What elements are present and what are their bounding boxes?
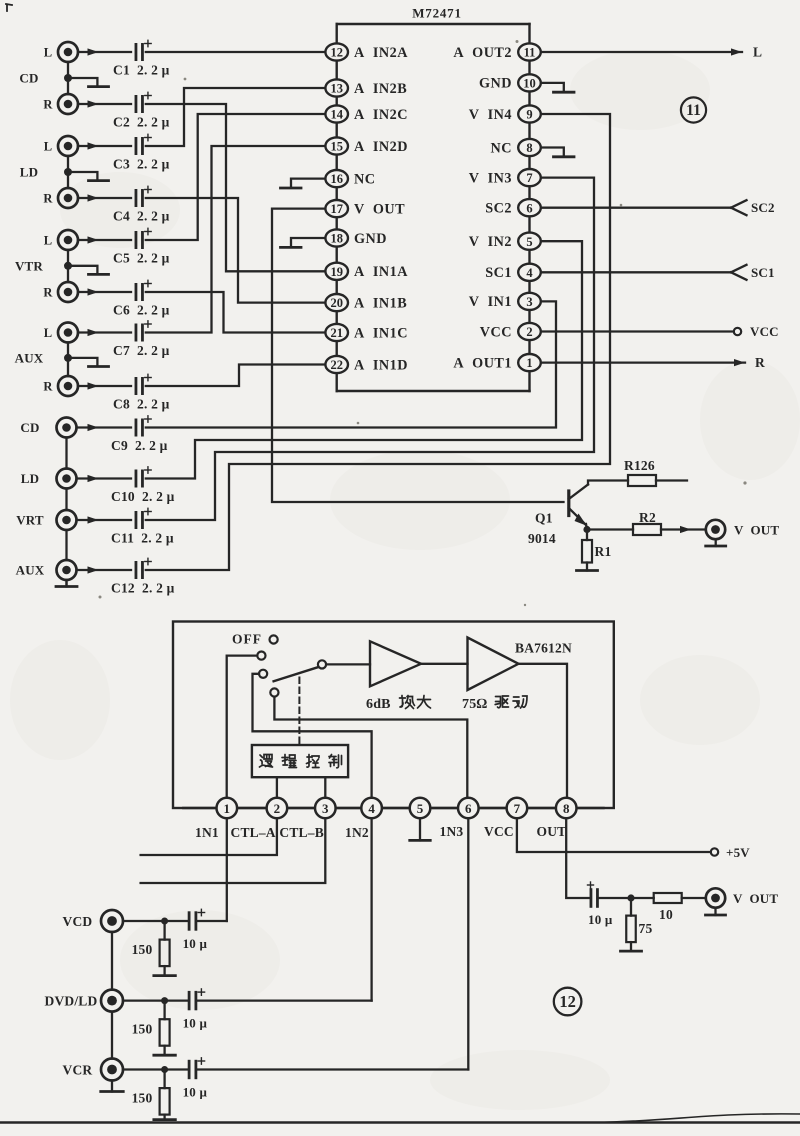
wire pin4 to DVD/LD input (370, 818, 372, 1001)
svg-text:OFF: OFF (232, 632, 262, 647)
capacitor C4 2.2u (113, 186, 170, 223)
wire jack to C4 (78, 194, 131, 201)
svg-text:SC2: SC2 (751, 200, 775, 215)
switch contact D (common) (318, 660, 326, 668)
wire cap to junction (598, 897, 632, 899)
wire jack to C5 (78, 236, 131, 243)
svg-text:18: 18 (330, 232, 343, 246)
svg-text:1N1: 1N1 (195, 825, 219, 840)
node CD junction (64, 74, 72, 82)
wire junction to resistor 150 (VCR) (163, 1073, 165, 1088)
pin 22 A IN1D (325, 356, 408, 373)
wire AUX jack pair chain (67, 343, 69, 377)
wire CD jack pair chain (67, 62, 69, 94)
wire C2 to pin19 (146, 104, 326, 271)
wire junction to resistor 150 (VCD) (163, 925, 165, 940)
wire jack to C6 (78, 288, 131, 295)
svg-text:Q1: Q1 (535, 511, 553, 526)
svg-text:V OUT: V OUT (734, 522, 779, 537)
svg-text:BA7612N: BA7612N (515, 641, 572, 656)
wire pin4 SC1 (541, 265, 747, 280)
resistor R126 (624, 458, 656, 486)
svg-text:R2: R2 (639, 510, 656, 525)
wire jack to C7 (78, 329, 131, 336)
svg-text:R: R (755, 355, 765, 370)
label AUX (15, 350, 44, 365)
wire pin17 V OUT to Q1 base (272, 209, 564, 502)
page bottom rule (0, 1121, 800, 1124)
svg-text:5: 5 (526, 235, 532, 249)
ground video jacks (56, 580, 77, 587)
pin 18 GND (325, 229, 387, 246)
page curl line (595, 1114, 800, 1123)
svg-text:L: L (44, 140, 53, 154)
svg-text:20: 20 (330, 296, 343, 310)
wire C1 to pin12 (146, 51, 326, 53)
wire cap to pin (VCD) (196, 920, 227, 922)
capacitor C7 2.2u (113, 321, 170, 358)
wire junction to R1 (586, 533, 588, 540)
wire VCR jack to cap (123, 1068, 189, 1070)
RCA jack V OUT (bottom) (706, 888, 779, 907)
label figure 12 (554, 988, 582, 1016)
ground pin10 GND (541, 83, 574, 92)
svg-text:V IN1: V IN1 (469, 294, 512, 310)
pin 1 A OUT1 (453, 354, 540, 371)
wire jack to C3 (78, 142, 131, 149)
ground VTR (68, 266, 109, 275)
ground pin5 (410, 818, 431, 840)
ground CD (68, 78, 109, 87)
label R output (755, 355, 765, 370)
svg-text:8: 8 (526, 141, 532, 155)
svg-text:12: 12 (330, 46, 343, 60)
svg-text:L: L (44, 234, 53, 248)
label CD (19, 71, 38, 86)
svg-text:22: 22 (330, 358, 343, 372)
svg-text:R: R (43, 380, 53, 394)
svg-text:VCC: VCC (750, 324, 779, 339)
capacitor C5 2.2u (113, 228, 170, 265)
pin 10 GND (479, 74, 541, 91)
svg-text:LD: LD (21, 471, 39, 486)
svg-text:SC1: SC1 (485, 265, 512, 281)
wire C4 to pin20 (146, 198, 326, 303)
svg-text:11: 11 (686, 102, 701, 119)
pin 7 of U2 (507, 798, 528, 819)
IC U1 label M72471 (412, 6, 462, 21)
resistor 150 (VCR) (132, 1088, 170, 1115)
ground resistor 150 (VCD) (154, 966, 176, 976)
wire R126 right (656, 479, 687, 481)
RCA jack DVD/LD (45, 990, 124, 1012)
pin 11 A OUT2 (453, 43, 540, 60)
svg-text:150: 150 (132, 1091, 153, 1106)
ground resistor 150 (VCR) (154, 1115, 176, 1120)
node LD junction (64, 168, 72, 176)
svg-text:2: 2 (526, 325, 532, 339)
svg-text:M72471: M72471 (412, 6, 462, 21)
capacitor C10 2.2u (111, 467, 175, 504)
svg-text:V IN2: V IN2 (469, 234, 512, 250)
wire VCD jack to cap (123, 920, 189, 922)
switch arm (274, 667, 318, 681)
svg-text:VCD: VCD (63, 914, 93, 929)
RCA jack video LD (21, 469, 77, 489)
svg-text:5: 5 (417, 801, 424, 816)
switch contact B (IN1) (257, 652, 265, 660)
RCA jack LD R (43, 188, 78, 208)
pin 19 A IN1A (325, 263, 408, 280)
pin 2 VCC (480, 323, 541, 340)
wire pin6 to VCR input (467, 818, 469, 1070)
wire jack to C11 (77, 516, 132, 523)
capacitor C11 2.2u (111, 508, 174, 545)
svg-text:6: 6 (465, 801, 472, 816)
pin 6 SC2 (485, 199, 541, 216)
svg-text:C9 2. 2 μ: C9 2. 2 μ (111, 438, 168, 453)
wire contact C to pin4 (253, 674, 372, 798)
RCA jack video VRT (16, 510, 76, 530)
svg-text:NC: NC (354, 171, 376, 187)
capacitor C9 2.2u (111, 416, 168, 453)
ground pin16 NC (281, 179, 326, 188)
wire C8 to pin22 (146, 365, 326, 387)
svg-text:V OUT: V OUT (354, 201, 405, 217)
capacitor C2 2.2u (113, 92, 170, 129)
svg-text:150: 150 (132, 942, 153, 957)
svg-text:7: 7 (526, 171, 532, 185)
wire LD jack pair chain (67, 156, 69, 188)
pin 15 A IN2D (325, 137, 408, 154)
label 75 ohm driver (462, 696, 527, 712)
pin 20 A IN1B (325, 294, 407, 311)
svg-text:C2 2. 2 μ: C2 2. 2 μ (113, 115, 170, 130)
wire junction to resistor 75 (630, 902, 632, 916)
scan specks (99, 40, 747, 606)
svg-text:A IN2A: A IN2A (354, 45, 408, 61)
svg-text:C5 2. 2 μ: C5 2. 2 μ (113, 251, 170, 266)
svg-text:LD: LD (20, 165, 38, 180)
wire jack to C1 (78, 48, 131, 55)
wire contact B to pin1 (227, 656, 258, 798)
wire pin2 VCC (541, 328, 741, 335)
resistor 75 ohm (626, 916, 652, 943)
svg-text:4: 4 (526, 266, 533, 280)
svg-text:GND: GND (479, 76, 512, 92)
RCA jack AUX R (43, 376, 78, 396)
svg-text:11: 11 (524, 46, 536, 60)
wire C6 to pin21 (146, 292, 326, 333)
switch contact OFF (270, 635, 278, 643)
RCA jack video CD (20, 418, 76, 438)
pin 1 of U2 (217, 798, 238, 819)
svg-text:C8 2. 2 μ: C8 2. 2 μ (113, 397, 170, 412)
pin 9 V IN4 (469, 105, 541, 122)
wire video jack chain (65, 438, 67, 585)
svg-text:A OUT2: A OUT2 (453, 45, 512, 61)
resistor R2 (633, 510, 661, 535)
svg-text:CD: CD (19, 71, 38, 86)
svg-text:9: 9 (526, 108, 532, 122)
wire jack to C2 (78, 100, 131, 107)
RCA jack VTR L (44, 230, 78, 250)
node DVD/LD junction (161, 997, 168, 1004)
label SC1 (751, 265, 775, 280)
IC U2 label BA7612N (515, 641, 572, 656)
pin 12 A IN2A (325, 43, 408, 60)
resistor R1 (582, 540, 611, 563)
scan speck top-left (6, 4, 12, 11)
wire DVD/LD jack to cap (123, 999, 189, 1001)
pin 17 V OUT (325, 200, 405, 217)
svg-text:6dB: 6dB (366, 697, 391, 712)
dashed control link (298, 678, 300, 745)
svg-text:10: 10 (523, 77, 536, 91)
svg-text:VCC: VCC (480, 324, 512, 340)
wire C7 to pin15 (146, 146, 326, 333)
logic control box (252, 745, 348, 777)
wire emitter to R2 (587, 528, 633, 530)
svg-text:9014: 9014 (528, 531, 556, 546)
capacitor 10u (DVD/LD) (183, 989, 208, 1031)
svg-text:C11 2. 2 μ: C11 2. 2 μ (111, 531, 174, 546)
svg-text:8: 8 (563, 801, 570, 816)
svg-text:R: R (43, 192, 53, 206)
svg-text:A IN1B: A IN1B (354, 295, 407, 311)
capacitor C12 2.2u (111, 558, 175, 595)
IC U2 BA7612N body outline (173, 622, 614, 809)
svg-text:75Ω: 75Ω (462, 697, 487, 712)
pin 4 SC1 (485, 264, 541, 281)
svg-text:C1 2. 2 μ: C1 2. 2 μ (113, 63, 170, 78)
ground resistor 75 (621, 942, 642, 951)
resistor 150 (VCD) (132, 940, 170, 967)
svg-text:NC: NC (491, 140, 513, 156)
capacitor C1 2.2u (113, 40, 170, 77)
pin 5 of U2 (410, 798, 431, 819)
wire amp1 to amp2 (421, 663, 468, 665)
wire C3 to pin13 (146, 88, 326, 146)
capacitor C6 2.2u (113, 280, 170, 317)
svg-text:CTL–A: CTL–A (231, 825, 276, 840)
svg-text:L: L (753, 45, 762, 60)
wire R2 to V OUT jack (661, 526, 706, 533)
svg-text:7: 7 (514, 801, 521, 816)
wire VTR jack pair chain (67, 250, 69, 282)
wire C9 to pin3 V IN1 (146, 301, 556, 427)
svg-text:1N2: 1N2 (345, 825, 369, 840)
RCA jack AUX L (44, 323, 78, 343)
wire Q1 collector (588, 481, 628, 485)
wire contact E to pin6 (274, 697, 467, 798)
svg-text:10 μ: 10 μ (183, 1016, 208, 1031)
ground V OUT jack (top) (706, 539, 726, 546)
svg-text:L: L (44, 46, 53, 60)
node output junction (627, 894, 634, 901)
svg-text:2: 2 (274, 801, 281, 816)
svg-text:A IN2D: A IN2D (354, 139, 408, 155)
svg-text:VTR: VTR (15, 258, 43, 273)
svg-text:+5V: +5V (726, 845, 750, 860)
transistor Q1 9014 (528, 485, 588, 547)
svg-text:V IN3: V IN3 (469, 170, 512, 186)
ground R1 (577, 563, 598, 571)
wire jack to C9 (77, 424, 132, 431)
svg-text:16: 16 (330, 172, 343, 186)
label +5V (726, 845, 750, 860)
RCA jack LD L (44, 136, 78, 156)
svg-text:21: 21 (330, 326, 343, 340)
wire pin1 A OUT1 to R output (541, 359, 745, 366)
pin 14 A IN2C (325, 105, 408, 122)
svg-text:VCC: VCC (484, 824, 514, 839)
node VTR junction (64, 262, 72, 270)
ground resistor 150 (DVD/LD) (154, 1046, 176, 1056)
svg-text:10 μ: 10 μ (588, 912, 613, 927)
pin 13 A IN2B (325, 79, 407, 96)
node AUX junction (64, 354, 72, 362)
RCA jack video AUX (16, 560, 77, 580)
svg-text:V IN4: V IN4 (469, 107, 512, 123)
wire jack to C12 (77, 566, 132, 573)
ground LD (68, 172, 109, 181)
RCA jack CD L (44, 42, 78, 62)
svg-text:3: 3 (526, 295, 532, 309)
wire C12 to pin9 V IN4 (146, 114, 610, 570)
svg-text:13: 13 (330, 82, 343, 96)
pin 4 of U2 (361, 798, 382, 819)
svg-text:1: 1 (224, 801, 231, 816)
pin 8 NC (491, 139, 541, 156)
wire junction to resistor 150 (DVD/LD) (163, 1004, 165, 1019)
resistor 10 ohm (654, 893, 682, 922)
label L output (753, 45, 762, 60)
RCA jack V OUT (top) (706, 520, 780, 539)
svg-text:150: 150 (132, 1022, 153, 1037)
wire junction to R 10 (631, 897, 654, 899)
ground V OUT jack (bottom) (706, 908, 726, 915)
svg-text:A IN1D: A IN1D (354, 357, 408, 373)
wire pin3 CTL-B stub (141, 818, 326, 883)
svg-text:17: 17 (330, 202, 343, 216)
node VCD junction (161, 918, 168, 925)
node Q1 emitter junction (583, 524, 590, 533)
svg-text:C7 2. 2 μ: C7 2. 2 μ (113, 343, 170, 358)
pin labels U2 (195, 824, 566, 840)
svg-text:10 μ: 10 μ (183, 1085, 208, 1100)
label figure 11 (681, 97, 706, 122)
pin 3 V IN1 (469, 293, 541, 310)
svg-text:4: 4 (368, 801, 375, 816)
wire logic box to pin2 (276, 777, 278, 798)
capacitor 10u (VCD) (183, 909, 208, 951)
svg-text:19: 19 (330, 265, 343, 279)
svg-text:CD: CD (20, 420, 39, 435)
svg-text:75: 75 (639, 921, 653, 936)
label VTR (15, 258, 43, 273)
svg-text:A OUT1: A OUT1 (453, 355, 512, 371)
label 6dB amplifier (366, 696, 431, 713)
wire contact D to amplifier (326, 663, 370, 665)
wire C10 to pin5 V IN2 (146, 241, 582, 478)
label VCC (750, 324, 779, 339)
svg-text:12: 12 (559, 992, 576, 1011)
ground pin8 NC (541, 148, 574, 157)
svg-text:R126: R126 (624, 458, 655, 473)
capacitor C8 2.2u (113, 374, 170, 411)
wire jack to C10 (77, 475, 132, 482)
svg-text:10: 10 (659, 907, 673, 922)
wire input jack chain (111, 932, 113, 1059)
svg-text:A IN2B: A IN2B (354, 81, 407, 97)
svg-text:AUX: AUX (16, 563, 45, 578)
label LD (20, 165, 38, 180)
switch contact C (IN2) (259, 670, 267, 678)
wire pin2 CTL-A stub (141, 818, 277, 855)
wire amp2 to pin8 (519, 664, 568, 798)
wire C11 to pin7 V IN3 (146, 178, 594, 520)
wire cap to pin (DVD/LD) (196, 999, 372, 1001)
ground pin18 GND (281, 238, 326, 247)
svg-text:DVD/LD: DVD/LD (45, 993, 98, 1008)
capacitor output 10u (588, 882, 613, 927)
wire cap to pin (VCR) (196, 1068, 468, 1070)
wire R 10 to V OUT jack (682, 897, 706, 899)
wire pin8 OUT down (566, 818, 591, 898)
capacitor C3 2.2u (113, 134, 170, 171)
RCA jack VTR R (43, 282, 78, 302)
pin 7 V IN3 (469, 169, 541, 186)
pin 2 of U2 (267, 798, 288, 819)
wire jack to C8 (78, 382, 131, 389)
svg-text:14: 14 (330, 108, 343, 122)
svg-text:SC1: SC1 (751, 265, 775, 280)
op-amp 75 ohm driver (468, 638, 519, 691)
label SC2 (751, 200, 775, 215)
svg-text:R: R (43, 286, 53, 300)
wire pin11 A OUT2 to L output (541, 48, 742, 55)
svg-text:A IN1C: A IN1C (354, 325, 408, 341)
svg-text:C6 2. 2 μ: C6 2. 2 μ (113, 303, 170, 318)
svg-text:A IN2C: A IN2C (354, 107, 408, 123)
svg-text:3: 3 (322, 801, 329, 816)
resistor 150 (DVD/LD) (132, 1019, 170, 1045)
pin 3 of U2 (315, 798, 336, 819)
svg-text:VCR: VCR (63, 1062, 93, 1077)
wire pin7 VCC to +5V (517, 818, 718, 856)
wire pin1 to VCD input (226, 818, 228, 921)
IC U2 bottom edge pin rail (183, 807, 603, 809)
svg-text:V OUT: V OUT (733, 891, 778, 906)
svg-text:CTL–B: CTL–B (279, 825, 324, 840)
svg-text:R1: R1 (595, 544, 612, 559)
ground VCR jack (101, 1081, 124, 1092)
pin 21 A IN1C (325, 324, 408, 341)
svg-text:10 μ: 10 μ (183, 936, 208, 951)
wire pin6 SC2 (541, 200, 747, 215)
svg-text:C10 2. 2 μ: C10 2. 2 μ (111, 489, 175, 504)
IC U1 M72471 body outline (337, 24, 530, 391)
svg-text:VRT: VRT (16, 513, 44, 528)
node VCR junction (161, 1066, 168, 1073)
op-amp 6dB (370, 641, 421, 686)
wire C5 to pin14 (146, 114, 326, 240)
svg-text:15: 15 (330, 140, 343, 154)
svg-text:L: L (44, 326, 53, 340)
svg-text:OUT: OUT (537, 824, 567, 839)
capacitor 10u (VCR) (183, 1058, 208, 1100)
